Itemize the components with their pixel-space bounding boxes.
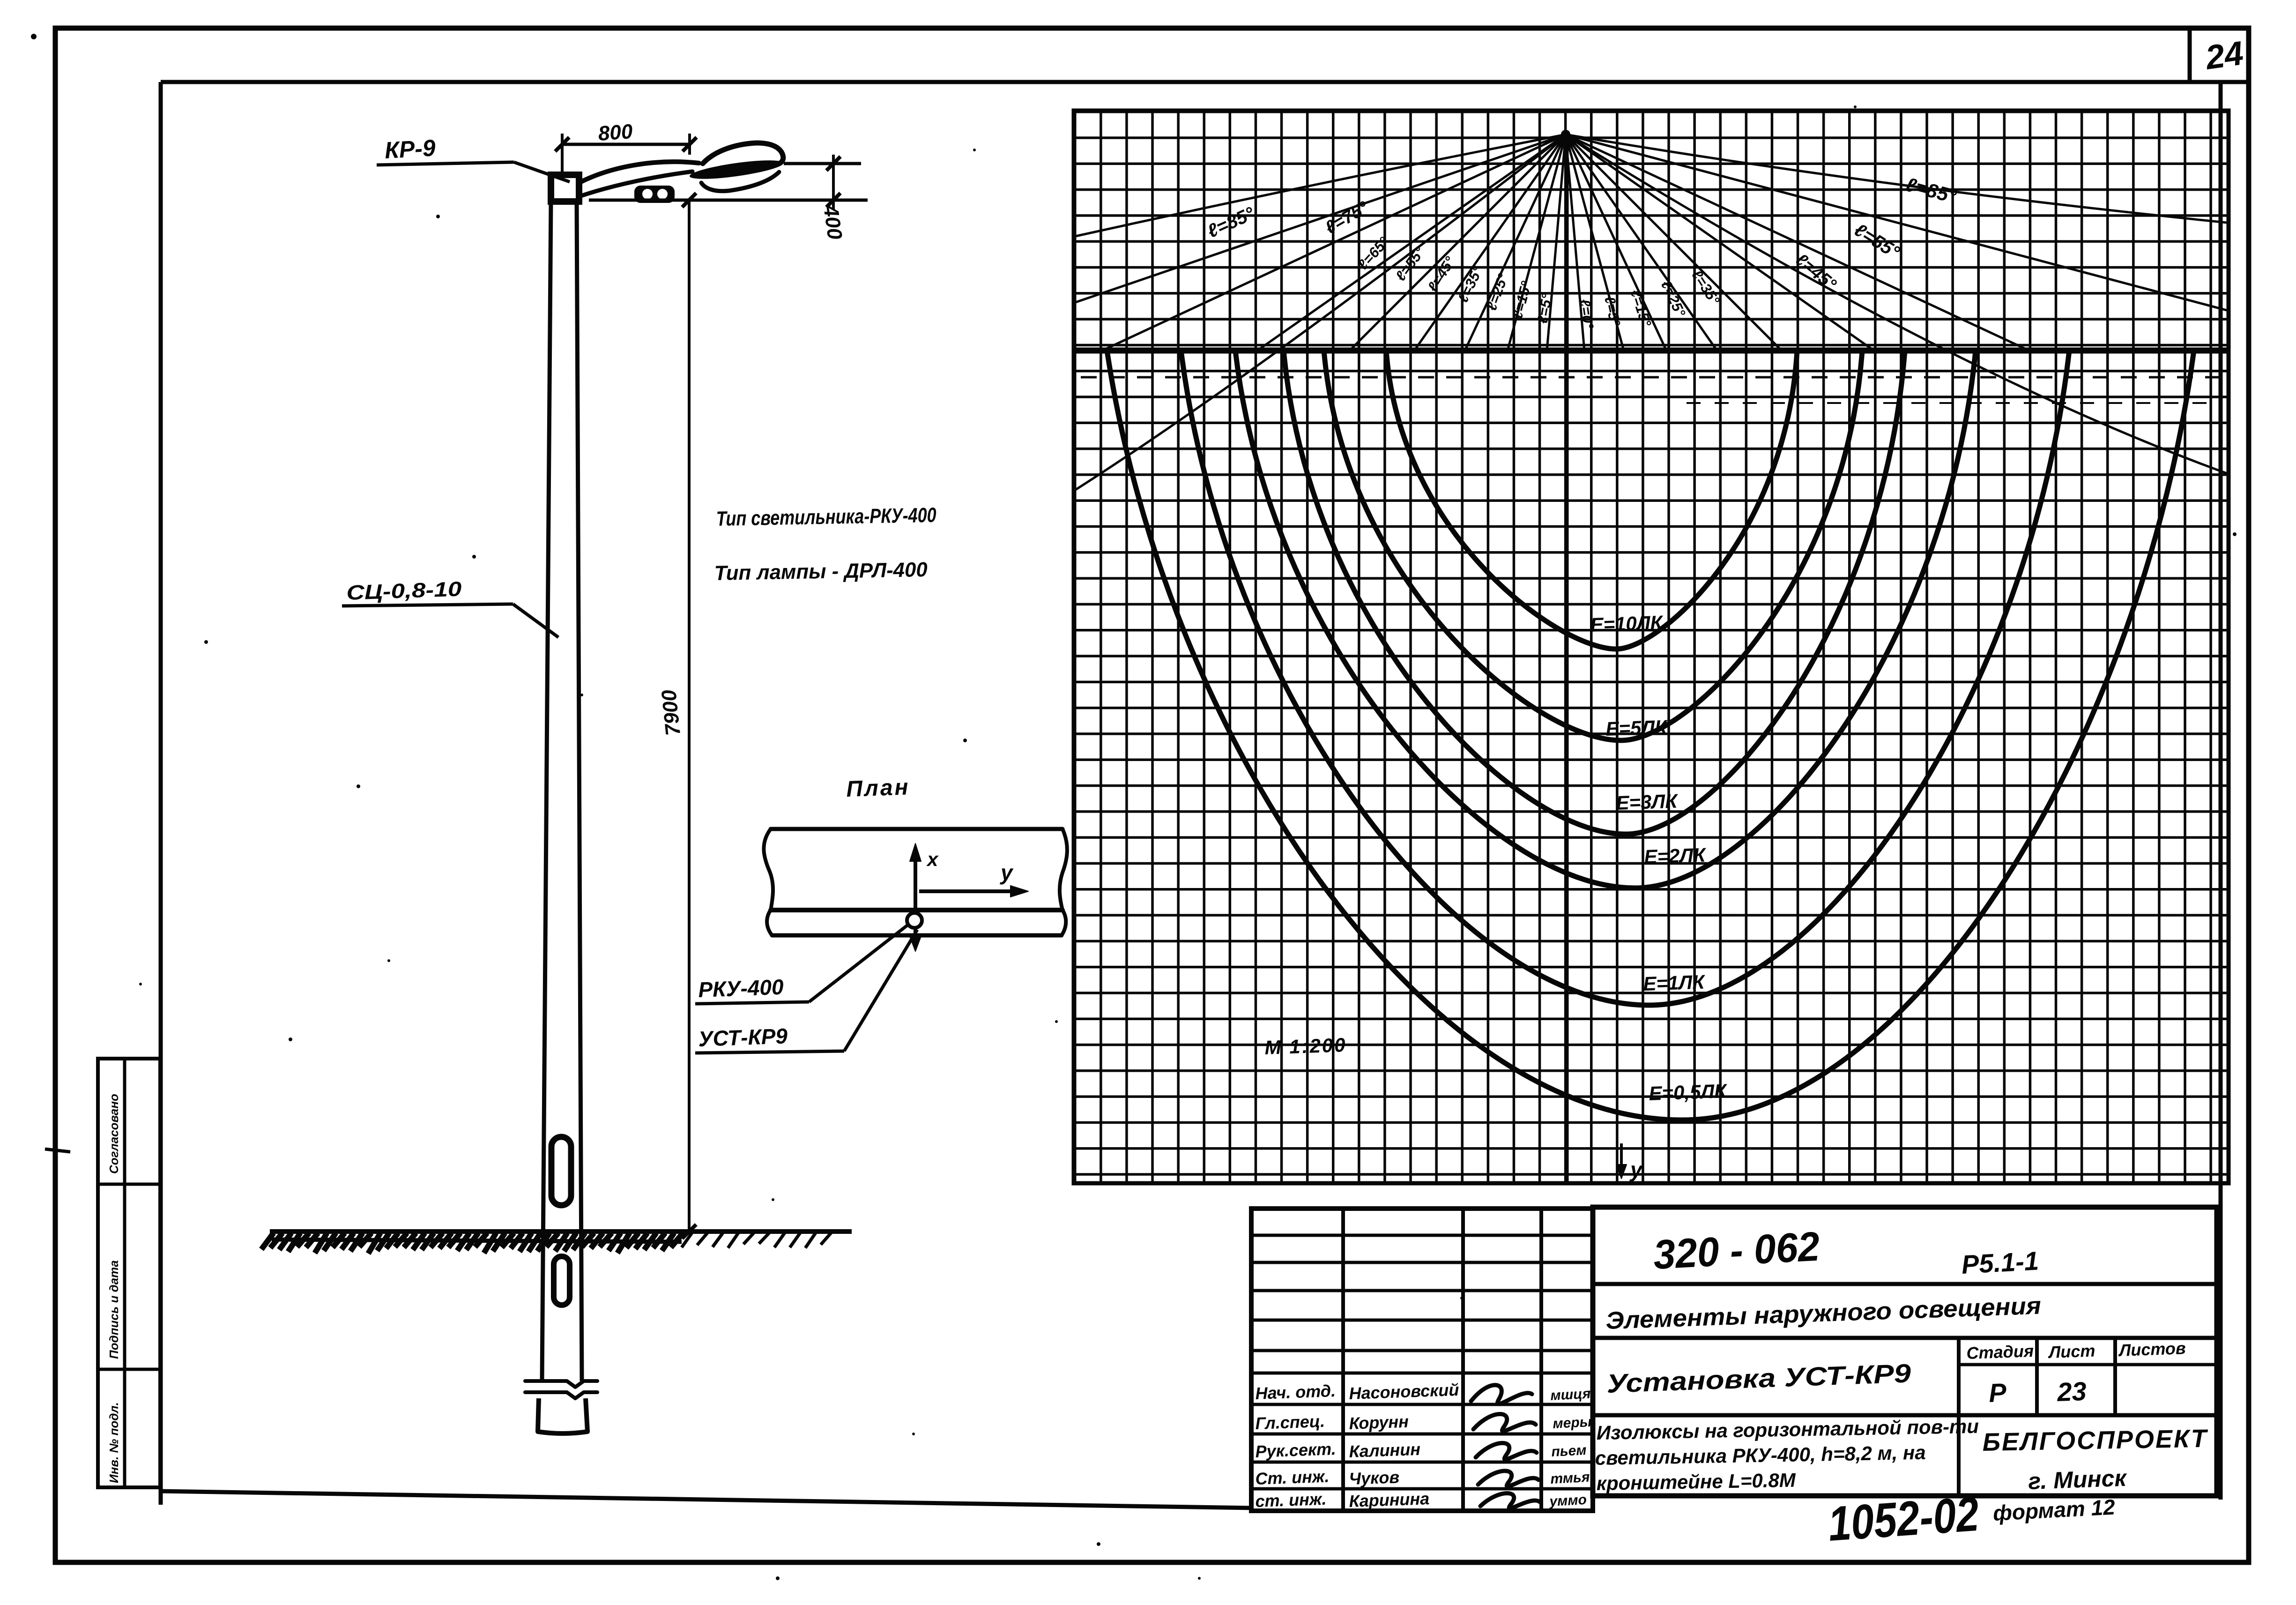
pole underground slots [551, 1137, 571, 1205]
plan: luminaire point [907, 913, 922, 928]
svg-text:План: План [846, 775, 911, 802]
svg-text:Тип светильника-РКУ-400: Тип светильника-РКУ-400 [716, 504, 936, 530]
dimension 400 (right) [784, 162, 861, 165]
svg-text:меры: меры [1553, 1414, 1592, 1432]
pole break line [525, 1381, 597, 1387]
chart: thick horizontal reference line [1074, 348, 2229, 354]
apex of ray fan [1561, 130, 1570, 139]
pole shaft [542, 202, 551, 1381]
isolux curve E=10ЛК [1386, 351, 1797, 649]
svg-text:Подпись и дата: Подпись и дата [107, 1260, 121, 1359]
grid border [1074, 111, 2229, 1183]
svg-text:кронштейне L=0.8М: кронштейне L=0.8М [1596, 1469, 1796, 1494]
isolux curve E=2ЛК [1235, 351, 1976, 888]
plan: x axis [914, 848, 917, 914]
svg-text:7900: 7900 [657, 688, 685, 737]
svg-text:Е=0,5ЛК: Е=0,5ЛК [1649, 1080, 1728, 1105]
svg-text:Лист: Лист [2047, 1341, 2095, 1362]
title block outline [1251, 1209, 1593, 1511]
signatures scribble [1471, 1385, 1532, 1404]
isolux curve E=3ЛК [1284, 351, 1905, 834]
svg-text:24: 24 [2202, 34, 2245, 77]
scan specks [31, 34, 37, 39]
y axis label at bottom [1620, 1143, 1623, 1174]
title block: left table [1341, 1209, 1345, 1511]
svg-text:320 - 062: 320 - 062 [1652, 1223, 1821, 1278]
svg-text:Чуков: Чуков [1349, 1467, 1400, 1488]
svg-text:СЦ-0,8-10: СЦ-0,8-10 [346, 577, 462, 605]
svg-text:x: x [926, 848, 939, 870]
svg-text:Гл.спец.: Гл.спец. [1255, 1411, 1325, 1433]
svg-text:Е=3ЛК: Е=3ЛК [1616, 790, 1679, 814]
svg-text:Е=1ЛК: Е=1ЛК [1643, 970, 1706, 995]
svg-text:Нач. отд.: Нач. отд. [1255, 1381, 1336, 1403]
svg-text:КР-9: КР-9 [384, 134, 437, 164]
bracket clamp [634, 186, 675, 203]
svg-text:Р5.1-1: Р5.1-1 [1961, 1246, 2039, 1279]
svg-text:Насоновский: Насоновский [1349, 1380, 1459, 1403]
svg-text:Листов: Листов [2118, 1338, 2186, 1360]
svg-text:ст. инж.: ст. инж. [1255, 1489, 1327, 1511]
svg-text:Е=5ЛК: Е=5ЛК [1605, 716, 1669, 740]
inner frame [161, 80, 2221, 84]
svg-text:Согласовано: Согласовано [107, 1094, 121, 1174]
svg-text:УСТ-КР9: УСТ-КР9 [698, 1023, 788, 1051]
svg-text:пьем: пьем [1551, 1442, 1587, 1460]
chart: dashed road line [1081, 376, 2224, 379]
svg-text:800: 800 [597, 120, 633, 145]
isolux curve E=0,5ЛК [1107, 351, 2194, 1120]
svg-text:23: 23 [2056, 1376, 2087, 1407]
svg-text:мшця: мшця [1550, 1386, 1591, 1403]
svg-text:Калинин: Калинин [1349, 1440, 1421, 1461]
chart: light ray fan [1547, 134, 1566, 351]
svg-text:БЕЛГОСПРОЕКТ: БЕЛГОСПРОЕКТ [1982, 1425, 2208, 1456]
chart: 75/85-degree boundary curves [1076, 134, 1566, 236]
svg-text:Ст. инж.: Ст. инж. [1255, 1467, 1330, 1488]
isolux curve E=1ЛК [1181, 351, 2069, 1005]
bracket KP-9 arm [579, 162, 699, 183]
dimension 800 (top) [562, 143, 690, 146]
svg-text:Тип лампы - ДРЛ-400: Тип лампы - ДРЛ-400 [714, 558, 928, 585]
svg-text:у: у [1629, 1157, 1643, 1182]
sheet number box 24 [2188, 29, 2192, 82]
svg-text:М 1:200: М 1:200 [1264, 1034, 1347, 1059]
svg-text:Стадия: Стадия [1966, 1341, 2034, 1363]
chart: vertical axis (0 ray) [1566, 134, 1569, 1183]
registration tick on left border [45, 1149, 70, 1152]
svg-text:г. Минск: г. Минск [2028, 1465, 2128, 1494]
svg-text:Р: Р [1988, 1378, 2007, 1408]
pole cap [551, 175, 579, 202]
svg-text:РКУ-400: РКУ-400 [698, 975, 784, 1002]
svg-text:уммо: уммо [1548, 1492, 1587, 1509]
ground line with hatching [270, 1229, 852, 1234]
svg-text:Инв. № подл.: Инв. № подл. [107, 1402, 121, 1483]
svg-text:Рук.сект.: Рук.сект. [1255, 1439, 1336, 1461]
plan: road band [771, 827, 1063, 831]
svg-text:1052-02: 1052-02 [1827, 1487, 1981, 1552]
isolux curve E=5ЛК [1324, 351, 1862, 740]
svg-text:тмья: тмья [1550, 1470, 1590, 1487]
title block: right part [1593, 1282, 2217, 1286]
svg-text:Е=2ЛК: Е=2ЛК [1644, 844, 1707, 868]
ground hatch [261, 1233, 274, 1249]
svg-text:400: 400 [819, 203, 847, 241]
plan: y axis [919, 889, 1024, 893]
left margin stamp strip [98, 1059, 160, 1487]
dimension 7900 (vertical) [688, 200, 691, 1232]
svg-text:у: у [1000, 860, 1014, 885]
luminaire RKU-400 head [689, 157, 784, 183]
svg-text:Е=10ЛК: Е=10ЛК [1590, 612, 1664, 636]
pole foundation part [538, 1398, 539, 1432]
svg-text:Корунн: Корунн [1349, 1412, 1409, 1433]
svg-text:Каринина: Каринина [1349, 1489, 1430, 1511]
